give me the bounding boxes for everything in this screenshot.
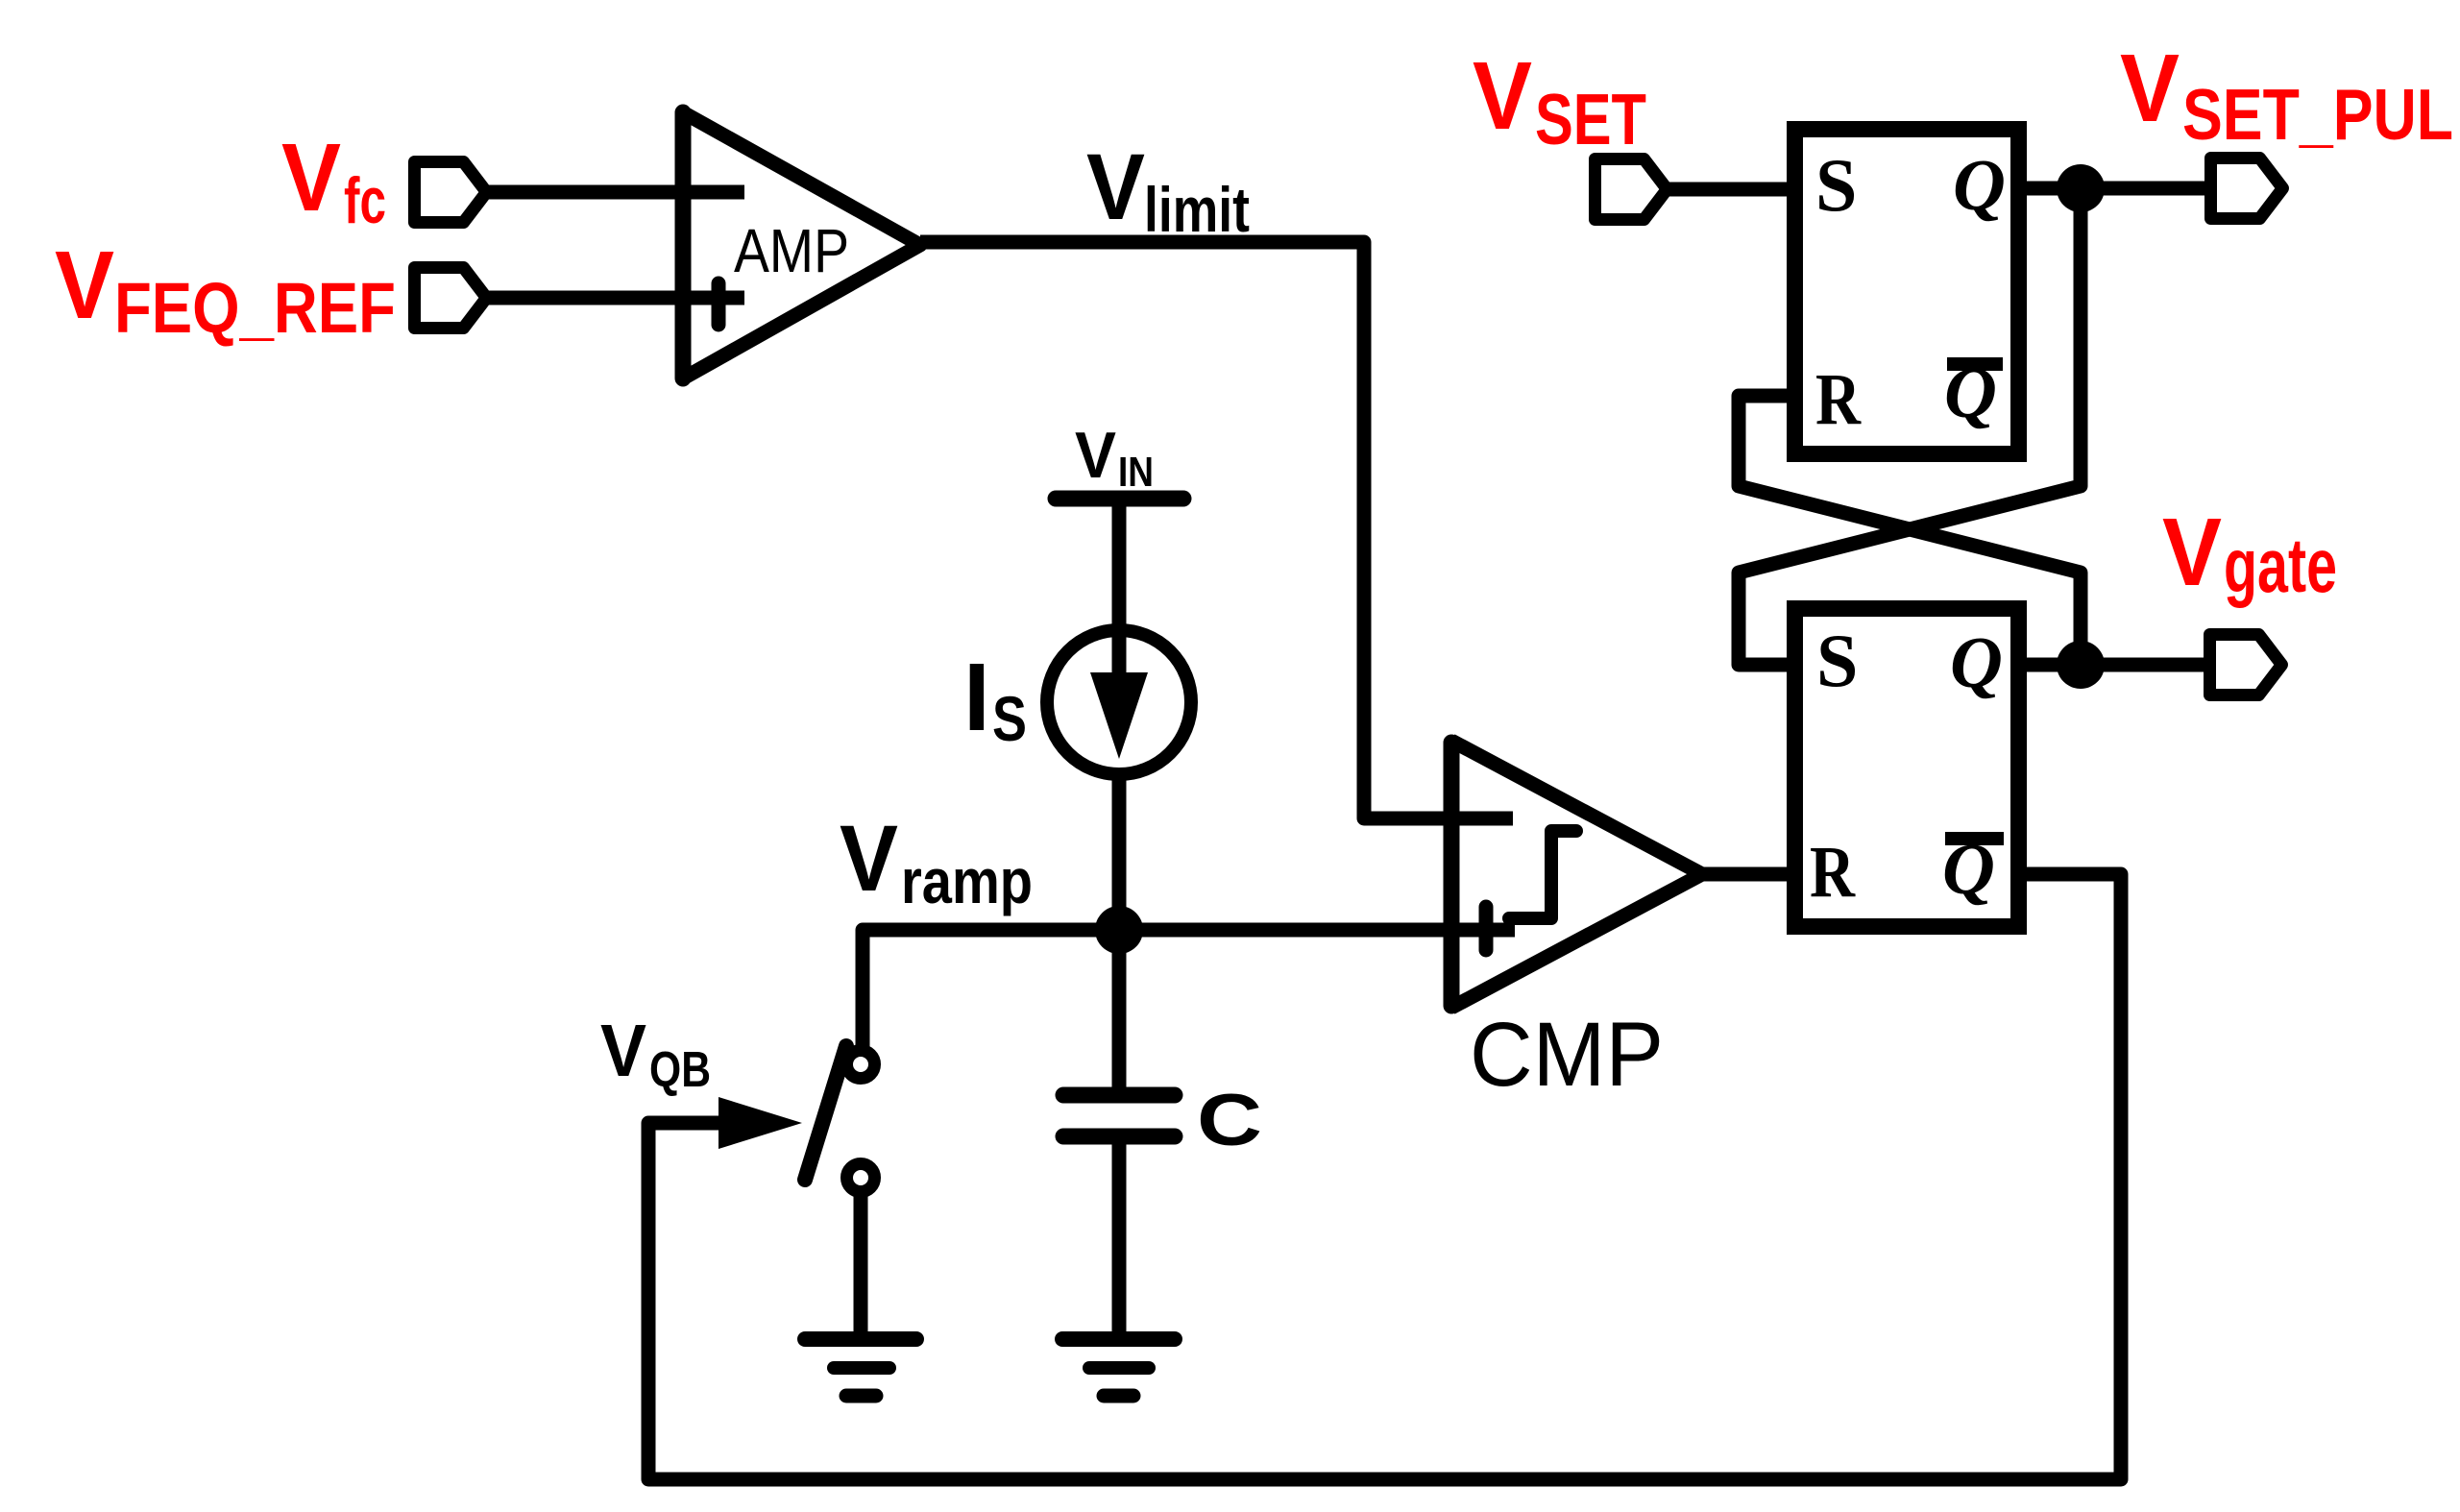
wire VIN bar down to current source [1112, 504, 1127, 697]
wire Vramp node left and down to switch [863, 930, 1119, 1047]
node VSET_PUL label [2120, 35, 2453, 155]
ground (capacitor) [1062, 1339, 1175, 1396]
comparator CMP name label [1470, 1004, 1664, 1106]
wire VSET pin to latch1 S input [1665, 183, 1789, 197]
capacitor C value label [1197, 1080, 1262, 1161]
svg-text:IN: IN [1118, 449, 1154, 496]
svg-text:I: I [963, 644, 990, 751]
svg-text:V: V [1473, 42, 1532, 150]
node Vgate label [2162, 499, 2337, 608]
svg-text:limit: limit [1144, 174, 1250, 245]
node Vlimit label [1086, 134, 1250, 245]
current source IS value label [963, 644, 1027, 754]
svg-text:C: C [1197, 1080, 1262, 1161]
ground (switch) [805, 1339, 916, 1396]
node Q2 junction dot [2057, 641, 2105, 689]
node Vfc label [281, 124, 386, 237]
svg-text:V: V [1075, 419, 1116, 492]
output pin Vgate [2210, 635, 2282, 695]
svg-text:Q: Q [1950, 622, 2003, 703]
svg-text:V: V [600, 1010, 646, 1092]
wire Vramp node down to capacitor [1112, 930, 1127, 1088]
wire VQB feedback: Qbar2 down, across bottom, up to switch arrow [648, 874, 2121, 1479]
svg-text:QB: QB [649, 1042, 711, 1098]
current source IS [1047, 630, 1191, 774]
svg-text:fc: fc [344, 164, 386, 237]
svg-text:Q: Q [1953, 145, 2006, 226]
svg-text:FEQ_REF: FEQ_REF [114, 268, 396, 348]
svg-text:gate: gate [2224, 523, 2337, 608]
wire Vlimit net: AMP output to CMP upper input [920, 242, 1513, 818]
svg-text:V: V [55, 232, 114, 339]
latch U4 pin Qbar label [1942, 829, 2004, 910]
latch U4 (SR latch bottom) [1795, 609, 2019, 927]
wire latch2 Q output to Vgate pin [2027, 658, 2210, 672]
switch S1 (reset switch) [805, 1046, 875, 1192]
svg-text:V: V [281, 124, 341, 232]
svg-text:V: V [840, 806, 898, 911]
input pin VSET [1595, 159, 1668, 220]
svg-text:R: R [1810, 832, 1856, 913]
input pin Vfc [415, 162, 487, 223]
node VIN label [1075, 419, 1154, 496]
svg-text:R: R [1815, 359, 1862, 440]
svg-text:CMP: CMP [1470, 1004, 1664, 1106]
svg-text:V: V [2162, 499, 2222, 606]
svg-text:V: V [2120, 35, 2180, 142]
wire cross-couple: latch2 S from latch1 Q [1739, 188, 2081, 665]
svg-text:S: S [992, 683, 1027, 754]
wire latch1 Q output to VSET_PUL pin [2027, 182, 2210, 196]
svg-text:V: V [1086, 134, 1145, 239]
wire switch to ground [854, 1196, 868, 1339]
wire current source to Vramp node [1112, 774, 1127, 930]
svg-text:AMP: AMP [734, 216, 849, 285]
svg-text:S: S [1815, 143, 1857, 227]
svg-text:SET_PUL: SET_PUL [2182, 74, 2453, 155]
wire VFEQ_REF to AMP inverting stub [485, 291, 744, 305]
svg-text:ramp: ramp [901, 845, 1033, 916]
wire Vfc to AMP noninverting stub [485, 185, 744, 200]
svg-text:S: S [1816, 619, 1858, 702]
comparator U2 CMP triangle [1451, 741, 1702, 1008]
op-amp AMP name label [734, 216, 849, 285]
capacitor C [1063, 1095, 1175, 1136]
wire Vramp node to CMP plus input [1119, 923, 1515, 938]
op-amp U1 AMP triangle [683, 112, 920, 378]
latch U3 (SR latch top) [1795, 130, 2019, 454]
node VSET label [1473, 42, 1646, 159]
node VQB label [600, 1010, 711, 1098]
node Q1 junction dot [2057, 164, 2105, 212]
wire cross-couple: latch1 R from latch2 Q [1739, 396, 2081, 665]
wire capacitor to ground [1112, 1143, 1127, 1339]
svg-text:SET: SET [1535, 79, 1646, 159]
latch U3 pin Qbar label [1944, 353, 2003, 433]
VQB drive arrowhead at switch [719, 1097, 802, 1149]
output pin VSET_PUL [2211, 159, 2283, 219]
wire CMP output to latch2 R input [1702, 867, 1789, 882]
input pin VFEQ_REF [415, 268, 487, 329]
node VFEQ_REF label [55, 232, 396, 348]
node Vramp label [840, 806, 1033, 916]
node Vramp junction dot [1095, 906, 1143, 954]
power VIN supply bar [1056, 491, 1183, 507]
